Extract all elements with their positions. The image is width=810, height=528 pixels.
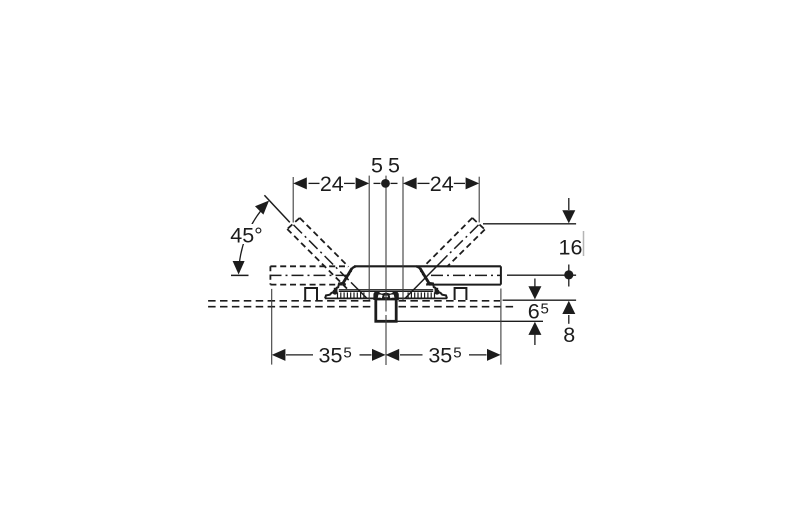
svg-text:5: 5	[388, 153, 400, 177]
svg-text:35: 35	[428, 344, 452, 368]
svg-text:5: 5	[541, 301, 549, 318]
svg-text:16: 16	[559, 236, 583, 260]
svg-text:5: 5	[453, 345, 461, 362]
svg-text:24: 24	[430, 172, 454, 196]
svg-text:45°: 45°	[230, 224, 263, 248]
svg-text:5: 5	[343, 345, 351, 362]
svg-text:8: 8	[563, 323, 575, 347]
svg-text:35: 35	[319, 344, 343, 368]
svg-text:6: 6	[528, 300, 540, 324]
svg-text:5: 5	[371, 153, 383, 177]
svg-text:24: 24	[320, 172, 344, 196]
